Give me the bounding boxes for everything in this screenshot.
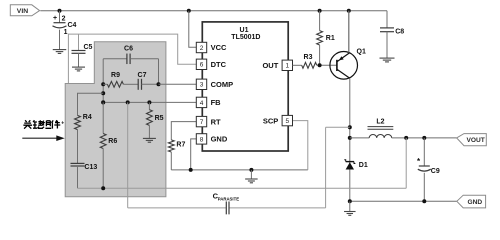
op wire DTC routing loop	[68, 34, 196, 83]
ground below C8	[380, 57, 395, 59]
resistor R9	[103, 83, 107, 85]
diode D1 schottky	[346, 162, 354, 169]
wire loop to switch node	[326, 126, 350, 128]
ground below C5	[72, 66, 85, 68]
svg-text:1: 1	[285, 63, 289, 70]
node C9 junction	[422, 136, 426, 140]
node FB-Cparasite column	[126, 100, 130, 104]
wire SCP riser	[293, 121, 308, 170]
resistor R1	[319, 11, 321, 31]
resistor R6	[102, 102, 104, 133]
node VCC branch junction	[187, 9, 191, 13]
svg-text:R6: R6	[108, 138, 117, 145]
wire switch node column	[349, 50, 351, 53]
node sense-R6 junction	[101, 186, 105, 190]
svg-text:C8: C8	[395, 28, 404, 35]
svg-text:COMP: COMP	[211, 80, 234, 89]
wire parasite column	[127, 102, 129, 207]
resistor R5	[148, 102, 150, 109]
svg-text:VOUT: VOUT	[467, 137, 485, 144]
pin 6 DTC	[196, 59, 206, 69]
node L2 branch	[348, 136, 352, 140]
wire FB net	[103, 101, 196, 103]
svg-text:Q1: Q1	[357, 48, 366, 55]
node Q1 emitter junction	[347, 9, 351, 13]
capacitor C9	[423, 138, 425, 166]
svg-text:C6: C6	[124, 45, 133, 52]
svg-text:PARASITE: PARASITE	[218, 196, 240, 201]
node ground symbol junction	[249, 168, 253, 172]
node comp-COMP junction	[157, 82, 161, 86]
wire analog ground net	[171, 169, 307, 171]
pin 1 OUT	[282, 60, 292, 70]
tag VOUT	[457, 134, 487, 146]
ground below C4	[53, 49, 67, 51]
node VIN-C4 junction	[58, 9, 62, 13]
arrow to key components	[22, 137, 57, 139]
wire L2 line	[350, 137, 369, 139]
resistor R7	[168, 140, 174, 152]
svg-text:C5: C5	[84, 44, 93, 51]
svg-text:R7: R7	[176, 142, 185, 149]
svg-text:R4: R4	[83, 114, 92, 121]
svg-text:1: 1	[64, 29, 68, 36]
svg-text:C9: C9	[431, 168, 440, 175]
pin 2 VCC	[196, 42, 206, 52]
node R1 junction	[318, 9, 322, 13]
svg-text:R3: R3	[304, 54, 313, 61]
capacitor C6	[103, 58, 127, 60]
svg-text:GND: GND	[211, 135, 228, 144]
capacitor C13	[71, 162, 85, 164]
IC U1 TL5001D body	[202, 22, 288, 151]
capacitor C8	[386, 11, 388, 28]
svg-text:R1: R1	[326, 35, 335, 42]
svg-text:C7: C7	[138, 72, 147, 79]
svg-text:+: +	[61, 121, 64, 127]
label key components (Chinese)	[23, 120, 60, 128]
svg-text:C4: C4	[68, 22, 77, 29]
svg-text:R9: R9	[111, 72, 120, 79]
node R9 left	[101, 82, 105, 86]
svg-text:*: *	[417, 157, 421, 166]
wire VCC branch	[189, 11, 197, 48]
svg-text:8: 8	[200, 136, 204, 143]
node FB net left	[101, 100, 105, 104]
wire RT pin	[171, 122, 196, 140]
svg-text:FB: FB	[211, 98, 222, 107]
wire comp right column	[158, 59, 160, 85]
wire VOUT sense return	[78, 187, 407, 189]
tag GND	[457, 195, 486, 208]
wire R4 top	[78, 93, 104, 115]
pin 4 FB	[196, 97, 206, 107]
svg-text:3: 3	[200, 82, 204, 89]
svg-text:RT: RT	[211, 117, 221, 126]
svg-text:2: 2	[62, 15, 66, 22]
svg-text:4: 4	[200, 100, 204, 107]
node sense junction	[404, 136, 408, 140]
pin 7 RT	[196, 116, 206, 126]
svg-text:L2: L2	[376, 118, 384, 125]
pin 3 COMP	[196, 79, 206, 89]
wire parasite loop column	[325, 127, 327, 208]
wire output ground	[350, 200, 457, 202]
capacitor C_PARASITE	[225, 201, 227, 214]
node C9 ground junction	[422, 199, 426, 203]
wire OUT to R3	[293, 64, 302, 66]
node GND-pin junction	[189, 168, 193, 172]
tag VIN	[10, 5, 39, 16]
wire L2 to VOUT	[392, 137, 457, 139]
wire GND pin 8	[191, 139, 197, 170]
svg-text:VCC: VCC	[211, 43, 227, 52]
svg-text:6: 6	[200, 62, 204, 69]
wire parasite bottom	[128, 207, 227, 209]
ground power	[349, 201, 351, 211]
pin 8 GND	[196, 134, 206, 144]
wire COMP pin	[159, 83, 197, 85]
ground mid	[250, 170, 252, 179]
resistor R3	[302, 62, 317, 68]
svg-text:D1: D1	[359, 162, 368, 169]
svg-text:5: 5	[285, 118, 289, 125]
svg-text:DTC: DTC	[211, 60, 227, 69]
svg-text:+: +	[53, 15, 57, 22]
svg-text:OUT: OUT	[262, 61, 278, 70]
svg-text:7: 7	[200, 119, 204, 126]
gray key-components region	[65, 42, 166, 197]
capacitor C7	[123, 83, 138, 85]
resistor R4	[75, 115, 81, 129]
capacitor C5	[78, 34, 80, 50]
svg-text:SCP: SCP	[263, 116, 278, 125]
svg-text:2: 2	[200, 45, 204, 52]
node base junction	[318, 63, 322, 67]
wire VIN top rail	[40, 10, 387, 12]
svg-text:U1: U1	[240, 27, 249, 34]
ground below R5	[143, 137, 156, 139]
wire Q1 emitter to rail	[348, 11, 350, 53]
wire compensation left column	[102, 59, 104, 103]
node FB-R5	[147, 100, 151, 104]
svg-text:GND: GND	[468, 199, 483, 206]
svg-text:TL5001D: TL5001D	[231, 34, 260, 41]
node FB-R6	[101, 100, 105, 104]
capacitor C4	[59, 11, 61, 23]
node switch-SCP loop	[348, 125, 352, 129]
pin 5 SCP	[282, 115, 292, 125]
transistor Q1	[330, 52, 358, 80]
svg-text:R5: R5	[155, 115, 164, 122]
node D1 ground junction	[348, 199, 352, 203]
inductor L2	[369, 134, 392, 137]
svg-text:VIN: VIN	[17, 8, 28, 15]
svg-text:C13: C13	[84, 164, 97, 171]
node R4 branch	[101, 91, 105, 95]
